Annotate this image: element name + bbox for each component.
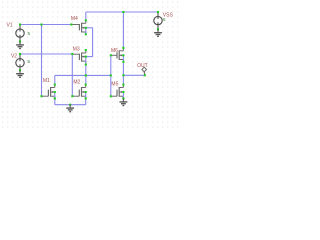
svg-text:M2: M2: [73, 79, 80, 85]
svg-text:M4: M4: [71, 16, 78, 22]
svg-text:M5: M5: [111, 82, 118, 88]
svg-text:OUT: OUT: [137, 63, 148, 69]
svg-text:M3: M3: [73, 46, 80, 52]
svg-text:M1: M1: [43, 78, 50, 84]
svg-text:M6: M6: [111, 48, 118, 54]
svg-text:V2: V2: [11, 53, 17, 59]
svg-text:V1: V1: [6, 23, 12, 29]
